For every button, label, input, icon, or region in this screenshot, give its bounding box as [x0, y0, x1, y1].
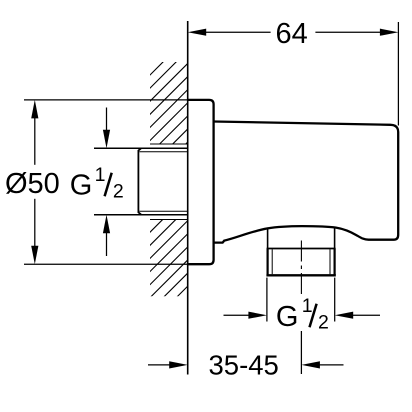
- outlet thread left inner line: [271, 249, 273, 274]
- dimension 35-45: left arrow + shaft: [148, 364, 171, 366]
- bottom G1/2 dimension: right arrow + shaft: [335, 312, 354, 319]
- svg-text:1: 1: [302, 295, 313, 317]
- svg-text:G: G: [70, 170, 93, 202]
- dimension 35-45: right arrow + shaft: [301, 361, 320, 368]
- bottom G1/2 label: [276, 295, 329, 334]
- dimension D50: bottom extension line: [24, 263, 188, 265]
- dimension 64: left line segment: [205, 31, 271, 33]
- wall hole bottom edge: [150, 219, 188, 221]
- left G1/2 dimension bottom arrow: [106, 232, 108, 256]
- left G1/2 label fraction slash: [105, 173, 112, 196]
- svg-text:2: 2: [113, 180, 124, 202]
- outlet collar right edge: [334, 227, 336, 248]
- svg-text:2: 2: [318, 312, 329, 334]
- dimension 64: right line segment: [315, 31, 381, 33]
- outlet thread bottom edge: [266, 274, 335, 276]
- body outline: [214, 122, 399, 243]
- dimension 35-45: lower centerline segment: [300, 331, 302, 374]
- wall hole top edge: [150, 143, 188, 145]
- outlet collar left edge: [267, 229, 269, 249]
- outlet thread left outer edge: [267, 249, 269, 276]
- dimension D50: top extension line: [24, 99, 188, 101]
- dimension D50: top arrow: [31, 100, 38, 119]
- dimension D50: upper line segment: [34, 117, 36, 165]
- dimension 64: right arrow: [380, 29, 399, 36]
- bottom G1/2 dimension: right extension line: [334, 278, 336, 322]
- inlet thread nipple G1/2 top edge + extension line: [94, 147, 188, 149]
- bottom G1/2 dimension: left arrow + shaft: [224, 314, 251, 316]
- outlet centerline (dash-dot): [300, 241, 302, 297]
- wall line: [187, 21, 189, 375]
- svg-text:64: 64: [276, 18, 308, 50]
- bottom G1/2 dimension: left extension line: [266, 278, 268, 322]
- outlet thread top line: [267, 248, 336, 250]
- left G1/2 dimension top arrow: [106, 108, 108, 132]
- inlet nipple thread inner line top: [139, 151, 187, 153]
- inlet nipple thread inner line bottom: [139, 210, 187, 212]
- svg-text:35-45: 35-45: [209, 350, 279, 381]
- outlet thread right inner line: [329, 249, 331, 274]
- svg-text:1: 1: [95, 164, 106, 186]
- dimension D50: lower line segment: [34, 199, 36, 247]
- svg-text:G: G: [276, 301, 299, 333]
- flange outline: [188, 100, 214, 264]
- dimension 64: left arrow: [188, 29, 207, 36]
- inlet thread nipple bottom edge + extension line: [94, 214, 188, 216]
- dimension D50: bottom arrow: [31, 246, 38, 265]
- bottom G1/2 label fraction slash: [310, 304, 317, 327]
- left G1/2 label: [70, 164, 124, 203]
- dimension 64: right extension line: [397, 22, 399, 126]
- svg-text:Ø50: Ø50: [5, 168, 60, 200]
- outlet thread right outer edge: [334, 249, 336, 276]
- inlet nipple left end face: [138, 148, 141, 215]
